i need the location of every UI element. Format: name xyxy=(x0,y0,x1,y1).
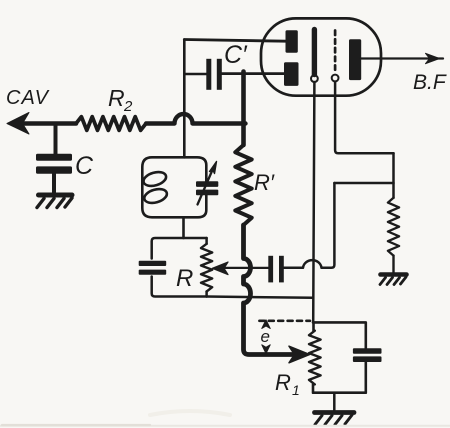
wire thick plate lead down from C' node xyxy=(241,72,246,146)
wire grid-2 pin down and across xyxy=(335,82,393,154)
potentiometer R1 (left edge zigzag) xyxy=(309,331,321,385)
wire C to ground xyxy=(52,174,56,193)
svg-text:C′: C′ xyxy=(224,41,248,69)
wire vertical from C' corner down to tank (passes under hop) xyxy=(183,40,186,158)
wire R1 box to ground xyxy=(333,393,336,411)
ground (below screen resistor) xyxy=(380,275,407,285)
resistor R' (thick) xyxy=(235,145,251,225)
variable capacitor plates xyxy=(196,181,218,195)
node e dimension arrows xyxy=(262,320,270,329)
wire thick below R' with two hops (bulge left) xyxy=(244,225,293,355)
svg-text:1: 1 xyxy=(292,382,300,398)
resistor (screen bleeder) xyxy=(388,198,399,256)
capacitor C xyxy=(36,154,72,174)
wire R2 to node (with hop over vertical) xyxy=(146,114,246,124)
wire anode out xyxy=(361,57,443,59)
wire top horizontal to tube grid-1 electrode xyxy=(184,40,286,42)
electrode anode (right) xyxy=(349,39,361,80)
inductor L (two loops) xyxy=(142,170,169,206)
wire tank to R box xyxy=(182,217,185,238)
ground (below C) xyxy=(37,195,72,208)
grid-2 dashed electrode xyxy=(334,31,337,73)
wire C' left lead xyxy=(184,73,206,76)
arrow CAV (points left) xyxy=(7,113,29,135)
R box wires (top, left split by cap, bottom extends to cathode line) xyxy=(152,238,207,259)
resistor R2 xyxy=(76,117,146,131)
arrow R wiper (points left) xyxy=(212,262,228,275)
tube U1 envelope xyxy=(261,18,381,95)
svg-text:CAV: CAV xyxy=(6,87,50,109)
scan artifacts xyxy=(0,411,450,426)
svg-text:R′: R′ xyxy=(254,170,275,195)
wire R box bottom to cathode line xyxy=(207,297,313,298)
dashed level line (top of R1) xyxy=(259,319,310,322)
wire resistor to ground xyxy=(392,256,394,273)
ground (below R1) xyxy=(315,413,355,425)
svg-text:e: e xyxy=(261,327,270,346)
R1 box wires (top, right split by cap, bottom) xyxy=(313,322,366,392)
arrow B.F (points right) xyxy=(426,53,440,63)
wire junction down to C xyxy=(54,125,58,156)
tank box wires xyxy=(142,157,206,217)
wire screen node down xyxy=(392,153,395,198)
wire C' right lead to tube electrode xyxy=(222,72,284,75)
electrode grid-1 (upper left) xyxy=(286,30,298,52)
coupling capacitor (vertical plates) xyxy=(268,256,284,283)
svg-text:B.F: B.F xyxy=(413,71,447,94)
label R1 xyxy=(275,370,300,398)
potentiometer R (right edge zigzag) xyxy=(205,238,208,244)
capacitor C' xyxy=(206,59,222,90)
arrow into R1 wiper (points right) xyxy=(289,346,310,363)
wire across to screen node xyxy=(334,182,393,185)
svg-text:R: R xyxy=(108,85,125,111)
electrode grid-3 (lower left) xyxy=(284,62,299,86)
svg-text:R: R xyxy=(176,265,193,292)
wire cathode down to R1 box xyxy=(313,82,314,322)
capacitor (R box left edge) xyxy=(139,261,167,275)
svg-text:C: C xyxy=(75,152,94,180)
capacitor (R1 box right edge) xyxy=(353,348,382,362)
svg-text:2: 2 xyxy=(123,98,133,115)
wire CAV main horizontal (AVC line) xyxy=(20,121,76,126)
svg-text:R: R xyxy=(275,370,291,395)
variable capacitor arrow xyxy=(198,171,213,205)
cathode bar xyxy=(312,30,317,75)
wire wiper to coupling cap xyxy=(224,267,268,269)
pin circle cathode xyxy=(311,75,318,82)
pin circle grid-2 xyxy=(332,75,339,82)
wire cap to right with hop over cathode line, up, and across xyxy=(284,183,335,268)
label R2 xyxy=(108,85,133,115)
